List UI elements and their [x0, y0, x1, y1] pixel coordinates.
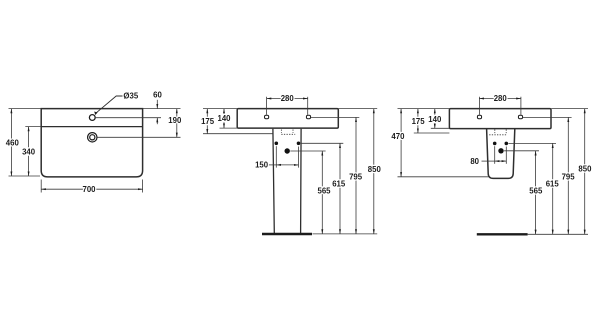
pedestal base [262, 233, 312, 236]
svg-text:340: 340 [22, 148, 36, 157]
svg-text:60: 60 [153, 91, 162, 100]
semi-pedestal outline [487, 129, 515, 179]
extension faucet level to 795 [311, 116, 359, 118]
extension faucet level to 795 [523, 116, 572, 118]
svg-text:460: 460 [6, 139, 20, 148]
dim 60 lower arrow [156, 118, 158, 125]
pedestal outline [273, 129, 301, 233]
floor line extension [313, 233, 378, 235]
extension faucet centerline (60) [96, 117, 161, 119]
svg-text:Ø35: Ø35 [123, 92, 138, 101]
dim line 280 [479, 98, 521, 100]
dim line 850 [584, 109, 586, 235]
extension fixing to 615 [301, 142, 344, 144]
extension 280 left [478, 97, 480, 115]
svg-text:795: 795 [349, 173, 363, 182]
dim line 795 [355, 117, 357, 233]
dim line 615 [552, 143, 554, 234]
hidden drain outline (dashed) [489, 130, 506, 135]
extension line 700 right [142, 180, 144, 193]
dim line 140 [434, 109, 436, 129]
hidden drain outline (dashed) [281, 130, 295, 135]
svg-text:850: 850 [368, 165, 382, 174]
drain hole inner [90, 135, 95, 140]
svg-text:615: 615 [546, 180, 560, 189]
extension line top left (460) [9, 108, 42, 110]
svg-text:140: 140 [217, 114, 231, 123]
fixing hole right [297, 142, 301, 146]
svg-text:280: 280 [281, 94, 295, 103]
svg-text:615: 615 [332, 180, 346, 189]
dim line 340 [28, 127, 30, 176]
leader line to faucet hole [96, 96, 123, 113]
svg-text:150: 150 [255, 161, 269, 170]
extension 150 right [298, 147, 300, 168]
svg-text:80: 80 [470, 157, 479, 166]
extension 280 left [266, 97, 268, 115]
extension basin top to 850 [551, 108, 588, 110]
extension drain centerline (190) [97, 136, 180, 138]
dim line 795 [567, 117, 569, 234]
dim line 460 [10, 109, 12, 176]
svg-text:565: 565 [317, 186, 331, 195]
faucet hole right (front) [306, 115, 310, 118]
fixing hole left [275, 142, 279, 146]
extension fixing to 615 [508, 142, 556, 144]
extension semi-pedestal bottom (470) [398, 176, 489, 178]
dim line 280 [267, 98, 308, 100]
dim line 850 [373, 109, 375, 234]
svg-text:565: 565 [529, 187, 543, 196]
svg-text:175: 175 [412, 117, 426, 126]
svg-text:280: 280 [494, 94, 508, 103]
faucet hole left (front) [477, 115, 481, 118]
floor line thick [477, 233, 528, 235]
extension 80 right [505, 147, 507, 164]
svg-text:190: 190 [168, 116, 182, 125]
extension 150 left [275, 146, 277, 167]
svg-text:795: 795 [562, 173, 576, 182]
extension 280 right [520, 97, 522, 115]
dim line 80 [495, 160, 507, 162]
fixing hole left [493, 142, 497, 146]
fixing hole right [505, 142, 509, 146]
dim line 470 [400, 109, 402, 177]
extension basin bottom (140) [220, 127, 238, 129]
extension 80 left [494, 146, 496, 164]
extension 280 right [307, 97, 309, 115]
dim line 150 [276, 164, 298, 166]
extension basin top left (175/140) [203, 108, 237, 110]
extension siphon to 565 [504, 150, 539, 152]
svg-text:850: 850 [578, 165, 592, 174]
extension line ledge (340) [25, 126, 41, 128]
leader dot [94, 112, 97, 116]
svg-text:140: 140 [428, 115, 442, 124]
dim line 615 [339, 143, 341, 234]
siphon hole [285, 148, 290, 153]
dim line 565 [321, 151, 323, 234]
dim 60 upper arrow [156, 100, 158, 109]
extension line bottom left (460/340) [9, 175, 41, 177]
floor line thin [528, 233, 588, 235]
extension basin under-edge (175) [414, 132, 450, 134]
dim line 700 [41, 188, 142, 190]
dim line 175 [206, 109, 208, 134]
dim line 80 leader [482, 160, 495, 162]
faucet hole left (front) [265, 115, 269, 118]
dim line 190 [176, 109, 178, 138]
basin back ledge line [41, 126, 142, 128]
svg-text:700: 700 [82, 185, 96, 194]
siphon hole [498, 148, 503, 153]
extension basin bottom (140) [431, 127, 450, 129]
svg-text:175: 175 [201, 117, 215, 126]
extension basin top edge right (190) [143, 108, 181, 110]
extension line 700 left [40, 180, 42, 193]
drain hole outer [88, 133, 97, 142]
dim line 175 [417, 109, 419, 133]
dim line 565 [535, 151, 537, 235]
extension basin top to 850 [338, 108, 377, 110]
dim line 150 leader [268, 164, 277, 166]
extension basin under-edge (175) [203, 133, 273, 135]
svg-text:470: 470 [391, 132, 405, 141]
faucet hole (top view) [89, 115, 95, 121]
faucet hole right (front) [518, 115, 522, 118]
dim line 140 [223, 109, 225, 129]
basin outline (top view) [41, 109, 142, 177]
extension siphon to 565 [290, 150, 325, 152]
basin outline (front view, semi-pedestal version) [449, 109, 551, 129]
basin outline (front view, pedestal version) [237, 109, 338, 129]
extension basin top left (470/175/140) [398, 108, 450, 110]
